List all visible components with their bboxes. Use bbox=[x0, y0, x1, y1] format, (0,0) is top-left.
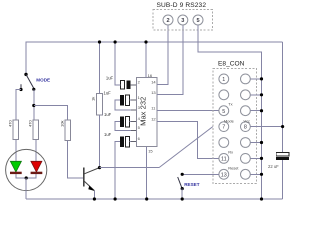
capacitor C3 1uF bbox=[120, 116, 130, 126]
svg-text:11: 11 bbox=[221, 157, 227, 163]
wire E8 pin8 to VCC bus bbox=[250, 126, 282, 128]
svg-text:8: 8 bbox=[244, 125, 247, 131]
capacitor C2 1uF bbox=[120, 95, 130, 105]
wire E8 r5 to GND bus bbox=[250, 142, 261, 144]
wire emitter to GND bbox=[93, 191, 95, 199]
transistor Q1 bbox=[84, 168, 100, 192]
svg-text:SUB-D 9 RS232: SUB-D 9 RS232 bbox=[157, 2, 207, 9]
wire E8 r7 to GND bus bbox=[250, 173, 261, 175]
E8 pin row3 right bbox=[241, 106, 251, 116]
wire pin12 to E8 Rx bbox=[157, 121, 219, 158]
wire R4 bottom to collector node bbox=[99, 115, 101, 168]
svg-text:Reset: Reset bbox=[228, 166, 239, 171]
wire E8 pin13 to reset switch bbox=[182, 173, 219, 175]
resistor R1 470 bbox=[13, 120, 18, 140]
junction pin15/GND bbox=[145, 197, 148, 200]
svg-text:12: 12 bbox=[151, 117, 156, 122]
resistor R3 bbox=[65, 120, 70, 141]
wire pin11 to E8 Tx bbox=[157, 109, 219, 111]
wire R1 to green LED bbox=[15, 140, 17, 162]
svg-text:3: 3 bbox=[181, 18, 184, 24]
E8 pin 7 Mode bbox=[219, 122, 229, 132]
wire pin15 to GND bbox=[146, 147, 148, 199]
E8 pin row5 right bbox=[241, 138, 251, 148]
LED green D1 bbox=[10, 161, 22, 174]
LED red D2 bbox=[31, 161, 43, 174]
wire cap bottom to ground rail bbox=[282, 160, 284, 199]
wire reset to GND bbox=[181, 189, 183, 199]
junction C1/VCC bbox=[114, 40, 117, 43]
wire R2 to red LED bbox=[35, 140, 37, 162]
svg-text:Rx: Rx bbox=[228, 149, 233, 154]
wire VCC right bus down to cap bbox=[282, 42, 284, 153]
svg-text:Tx: Tx bbox=[228, 102, 232, 107]
wire C3 right to pin4 bbox=[130, 120, 137, 122]
svg-text:RESET: RESET bbox=[184, 182, 200, 187]
wire E8 r6 to GND bus bbox=[250, 157, 261, 159]
junction R4/VCC bbox=[98, 40, 101, 43]
wire C2 right to pin1 bbox=[130, 99, 137, 101]
wire C4 right to pin6 bbox=[130, 141, 137, 143]
svg-text:5: 5 bbox=[222, 109, 225, 115]
junction GND bus / rail bbox=[260, 197, 263, 200]
wire mode contact2 down bbox=[33, 89, 35, 120]
junction LED common bbox=[25, 176, 28, 179]
capacitor C1 1uF bbox=[120, 81, 130, 90]
svg-text:1: 1 bbox=[222, 77, 225, 83]
svg-text:1uF: 1uF bbox=[104, 112, 112, 117]
svg-text:E8_CON: E8_CON bbox=[218, 61, 245, 68]
junction pin16/VCC bbox=[144, 40, 147, 43]
wire branch to R3 bbox=[34, 106, 68, 121]
E8 pin row1 right bbox=[241, 74, 251, 84]
svg-text:5: 5 bbox=[196, 18, 199, 24]
wire GND bottom rail bbox=[26, 198, 283, 200]
svg-text:Max 232: Max 232 bbox=[139, 97, 148, 126]
svg-text:MODE: MODE bbox=[36, 77, 50, 82]
svg-text:470: 470 bbox=[28, 120, 33, 127]
wire LED cathodes join bbox=[16, 174, 36, 178]
svg-text:10k: 10k bbox=[59, 121, 64, 127]
E8 pin 8 Vcc bbox=[241, 122, 251, 132]
svg-text:15: 15 bbox=[148, 148, 153, 153]
junction emitter/GND bbox=[93, 197, 96, 200]
connector E8 dashed box bbox=[213, 69, 257, 184]
svg-text:470: 470 bbox=[8, 120, 13, 127]
E8 pin row5 left bbox=[219, 138, 229, 148]
junction reset/GND bbox=[181, 197, 184, 200]
E8 pin 1 bbox=[219, 74, 229, 84]
svg-text:Vcc: Vcc bbox=[244, 119, 251, 124]
wire R4 top to VCC rail bbox=[99, 42, 101, 93]
E8 pin row7 right bbox=[241, 169, 251, 179]
E8 pin row2 left bbox=[219, 90, 229, 100]
capacitor C5 22uF bottom plate bbox=[276, 157, 289, 160]
wire R3 to base bbox=[68, 141, 84, 178]
wire LED common to GND rail bbox=[25, 178, 27, 199]
svg-text:14: 14 bbox=[151, 80, 156, 85]
wire C1 right to pin2 bbox=[131, 84, 137, 86]
switch S2 RESET bbox=[178, 173, 184, 191]
capacitor C4 1uF bbox=[120, 137, 130, 147]
wire E8 r3 to GND bus bbox=[250, 110, 261, 112]
wire Mode net horizontal bbox=[100, 167, 160, 169]
svg-text:13: 13 bbox=[221, 172, 227, 178]
svg-text:1k: 1k bbox=[91, 97, 96, 101]
wire mode contact1 to R1 bbox=[16, 90, 21, 121]
wire pin14 to SUBD pin2 bbox=[157, 25, 168, 84]
junction C4/GND bbox=[114, 197, 117, 200]
svg-text:13: 13 bbox=[151, 90, 156, 95]
wire pin16 to VCC bbox=[145, 42, 147, 78]
wire VCC top rail bbox=[26, 42, 283, 74]
op-amp U1 Max232 body bbox=[137, 78, 158, 147]
resistor R2 470 bbox=[33, 120, 38, 140]
svg-text:16: 16 bbox=[148, 73, 153, 78]
U1 pin stubs bbox=[131, 73, 162, 153]
svg-text:7: 7 bbox=[222, 125, 225, 131]
svg-text:1uF: 1uF bbox=[104, 132, 112, 137]
wire E8 r1 to GND bus bbox=[250, 78, 261, 80]
svg-text:1uF: 1uF bbox=[104, 90, 112, 95]
wire C3 left to pin5 bbox=[115, 121, 136, 130]
SUBD pin 3 bbox=[178, 15, 188, 25]
E8 pin 5 Tx bbox=[219, 106, 229, 116]
E8 pin row2 right bbox=[241, 90, 251, 100]
SUBD pin 2 bbox=[163, 15, 173, 25]
svg-text:22 uF: 22 uF bbox=[268, 164, 279, 169]
wire pin13 to SUBD pin3 bbox=[157, 25, 183, 95]
svg-text:2: 2 bbox=[166, 18, 169, 24]
wire C2 left to pin3 bbox=[115, 100, 136, 110]
wire C4 left to GND bbox=[115, 142, 120, 200]
E8 pin row6 right bbox=[241, 154, 251, 164]
svg-text:1uF: 1uF bbox=[106, 75, 114, 80]
SUBD pin 5 bbox=[193, 15, 203, 25]
connector X1 dashed box bbox=[153, 10, 212, 31]
svg-text:Mode: Mode bbox=[224, 119, 234, 124]
wire SUBD pin5 GND bus bbox=[198, 25, 262, 199]
wire Mode net diagonal bbox=[159, 127, 213, 168]
E8 pin 13 Reset bbox=[219, 169, 229, 179]
wire C1 left to VCC bbox=[115, 42, 120, 85]
wire E8 r2 to GND bus bbox=[250, 94, 261, 96]
switch S1 MODE bbox=[19, 73, 35, 91]
junction mode branch bbox=[32, 104, 35, 107]
capacitor C5 22uF top plate bbox=[276, 153, 289, 156]
E8 pin 11 Rx bbox=[219, 154, 229, 164]
resistor R4 1k bbox=[97, 93, 103, 115]
LED duo package circle bbox=[6, 149, 47, 190]
junction collector node bbox=[98, 166, 101, 169]
